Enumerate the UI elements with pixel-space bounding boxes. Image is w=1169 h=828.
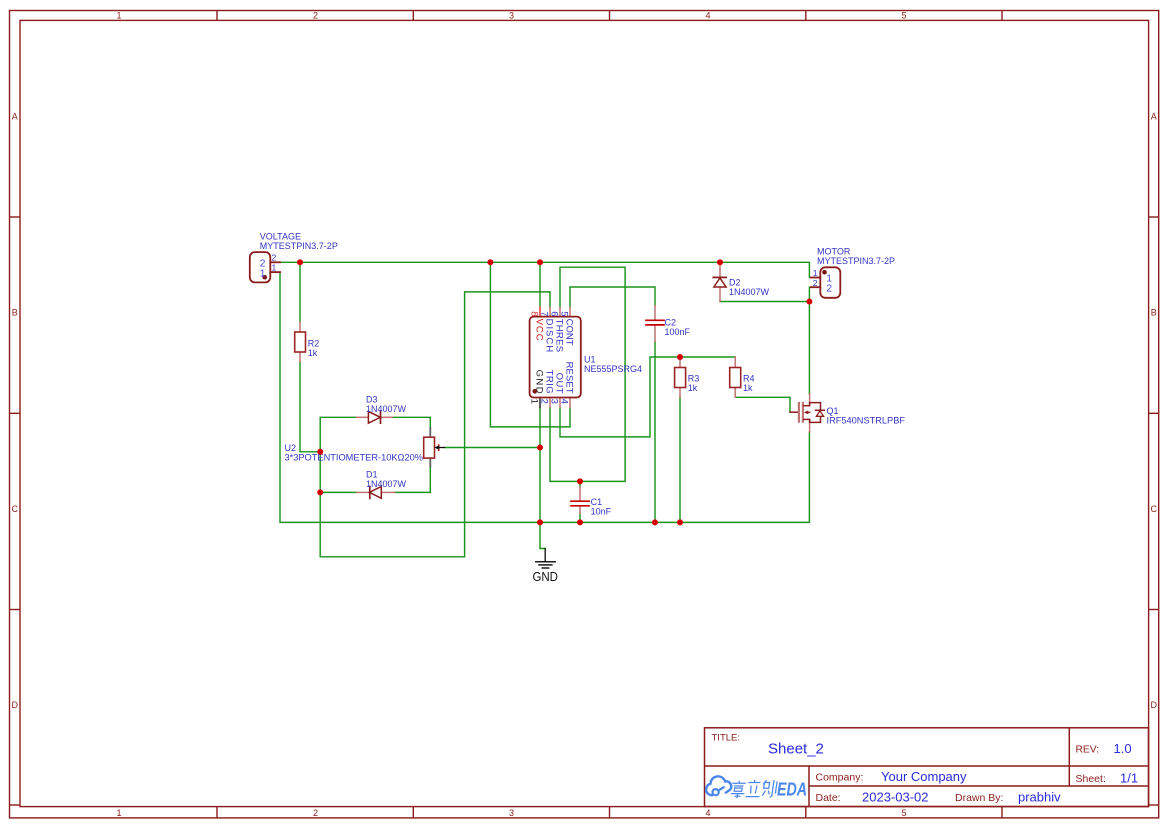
svg-text:A: A (12, 111, 18, 121)
svg-text:Sheet_2: Sheet_2 (768, 741, 824, 758)
svg-text:1N4007W: 1N4007W (366, 479, 407, 489)
svg-text:3: 3 (509, 808, 514, 818)
title block (705, 728, 1149, 807)
wire VCC top rail from VOLTAGE pin2 to MOTOR pin1 (280, 262, 809, 277)
svg-text:REV:: REV: (1076, 745, 1100, 756)
wire D3 row left (320, 416, 356, 418)
diode D2 1N4007W (flyback) (713, 262, 769, 301)
resistor R3 1k (675, 357, 700, 397)
wire R2 bottom to pot-left node (300, 362, 320, 452)
wire rail to RESET pin4 (490, 262, 570, 427)
svg-text:R2: R2 (308, 338, 320, 348)
svg-text:Sheet:: Sheet: (1076, 773, 1106, 785)
svg-text:Q1: Q1 (827, 406, 839, 416)
diode D1 1N4007W (357, 470, 407, 499)
node C1-trig (577, 478, 583, 484)
wire CONT pin5 to C2 top (570, 287, 655, 307)
wire gnd symbol drop (540, 522, 545, 548)
svg-text:2: 2 (272, 253, 277, 263)
svg-text:B: B (1151, 308, 1157, 318)
wire OUT pin3 to R3/R4 top (560, 357, 735, 437)
svg-text:2: 2 (813, 278, 818, 288)
node rail-VCC (537, 259, 543, 265)
svg-text:6: 6 (549, 311, 560, 316)
svg-text:IRF540NSTRLPBF: IRF540NSTRLPBF (827, 416, 906, 426)
ground GND symbol (532, 549, 558, 584)
svg-text:1: 1 (116, 10, 121, 20)
svg-text:4: 4 (705, 10, 710, 20)
node gnd-R3 (677, 519, 683, 525)
node wiper-gnd (537, 445, 543, 451)
svg-text:3: 3 (549, 399, 560, 404)
svg-text:10nF: 10nF (591, 507, 612, 517)
svg-text:D2: D2 (729, 278, 741, 288)
wire D1 row left (320, 491, 356, 493)
transistor Q1 IRF540NSTRLPBF (790, 394, 906, 432)
potentiometer U2 (285, 428, 445, 467)
svg-text:4: 4 (705, 808, 710, 818)
svg-text:4: 4 (559, 399, 570, 404)
wire R3 top stub (679, 357, 681, 360)
svg-text:OUT: OUT (554, 373, 565, 394)
wire C2 bottom to gnd rail (654, 342, 656, 523)
node rail-D2 (717, 259, 723, 265)
wire pot wiper to gnd net (445, 447, 541, 449)
wire pot bottom to D1 row (395, 466, 431, 492)
op-amp U1 NE555PSRG4 (555 timer IC) (529, 307, 642, 407)
svg-text:Your Company: Your Company (881, 769, 967, 784)
junction node dots (297, 259, 812, 525)
svg-text:1k: 1k (743, 383, 753, 393)
wire bottom loop to DISCH pin7 (320, 292, 550, 557)
CIRCUIT (250, 232, 906, 584)
wire D3 row right to pot top (393, 417, 431, 428)
svg-text:Date:: Date: (816, 792, 841, 804)
logo JLC EDA cloud (706, 776, 807, 799)
svg-text:RESET: RESET (564, 362, 575, 394)
svg-text:MOTOR: MOTOR (817, 247, 851, 257)
node rail-R2 (297, 259, 303, 265)
capacitor C1 10nF (571, 487, 612, 517)
svg-text:D1: D1 (366, 470, 378, 480)
svg-text:5: 5 (559, 311, 570, 316)
wire D2 bottom to motor/drain node (720, 301, 809, 303)
wire GND: VOLTAGE pin1 down, bottom rail, up to Q1 source (280, 272, 809, 522)
svg-text:C1: C1 (591, 497, 603, 507)
svg-text:VCC: VCC (534, 319, 545, 341)
立 glyph approx (745, 780, 761, 797)
svg-text:U1: U1 (584, 355, 596, 365)
diode D3 1N4007W (357, 395, 407, 424)
connector U? VOLTAGE MYTESTPIN3.7-2P (250, 232, 338, 283)
svg-text:R3: R3 (688, 374, 700, 384)
wire C1 bottom to rail (579, 514, 581, 523)
svg-text:D: D (1150, 700, 1157, 710)
svg-text:D3: D3 (366, 395, 378, 405)
svg-text:3*3POTENTIOMETER-10KΩ20%: 3*3POTENTIOMETER-10KΩ20% (285, 453, 424, 463)
node R2-pot (317, 449, 323, 455)
svg-text:3: 3 (509, 10, 514, 20)
wire rail to R2 top (299, 262, 301, 322)
svg-text:MYTESTPIN3.7-2P: MYTESTPIN3.7-2P (260, 241, 338, 251)
svg-text:100nF: 100nF (665, 327, 691, 337)
svg-text:CONT: CONT (564, 319, 575, 346)
svg-text:7: 7 (539, 311, 550, 316)
wire MOTOR pin2 down to Q1 drain (808, 287, 810, 394)
svg-text:2: 2 (826, 283, 832, 295)
svg-text:D: D (11, 700, 18, 710)
svg-text:1k: 1k (688, 383, 698, 393)
node gnd-C1 (577, 519, 583, 525)
svg-text:NE555PSRG4: NE555PSRG4 (584, 364, 642, 374)
resistor R2 1k (295, 322, 320, 362)
wire rail to VCC pin8 (539, 262, 541, 307)
svg-text:prabhiv: prabhiv (1018, 790, 1061, 805)
svg-text:1: 1 (813, 268, 818, 278)
node gnd-pin1 (537, 519, 543, 525)
svg-text:1: 1 (529, 399, 540, 404)
svg-text:TITLE:: TITLE: (712, 733, 741, 744)
svg-text:1: 1 (260, 267, 266, 279)
node D1-pot (317, 489, 323, 495)
svg-text:A: A (1151, 111, 1157, 121)
svg-text:1k: 1k (308, 348, 318, 358)
svg-text:DISCH: DISCH (544, 319, 555, 353)
svg-text:2: 2 (313, 808, 318, 818)
svg-text:5: 5 (901, 808, 906, 818)
svg-text:2: 2 (313, 10, 318, 20)
node gnd-C2 (652, 519, 658, 525)
svg-text:1: 1 (272, 263, 277, 273)
wire R4 bottom to Q1 gate (735, 397, 790, 412)
capacitor C2 100nF (646, 306, 691, 342)
wire R3 bottom to gnd rail (679, 397, 681, 522)
resistor R4 1k (730, 357, 755, 397)
svg-text:2023-03-02: 2023-03-02 (862, 790, 929, 805)
svg-text:1N4007W: 1N4007W (729, 287, 770, 297)
node R3-out (677, 354, 683, 360)
svg-text:1N4007W: 1N4007W (366, 404, 407, 414)
svg-text:MYTESTPIN3.7-2P: MYTESTPIN3.7-2P (817, 256, 895, 266)
svg-text:TRIG: TRIG (544, 370, 555, 394)
嘉 glyph approx (730, 781, 746, 798)
svg-text:B: B (12, 308, 18, 318)
svg-text:8: 8 (529, 311, 540, 316)
svg-text:GND: GND (534, 370, 545, 394)
wire THRES pin6 to TRIG pin2 and C1 top (550, 267, 625, 481)
node D2-motor (806, 299, 812, 305)
创 glyph approx (761, 780, 777, 797)
svg-text:R4: R4 (743, 374, 755, 384)
svg-text:1.0: 1.0 (1114, 741, 1132, 756)
svg-text:GND: GND (532, 569, 558, 584)
svg-text:C: C (11, 504, 18, 514)
node rail-RESET (487, 259, 493, 265)
svg-text:C: C (1150, 504, 1157, 514)
wire 555 GND pin1 down to rail (539, 407, 541, 522)
svg-text:5: 5 (901, 10, 906, 20)
svg-text:THRES: THRES (554, 319, 565, 353)
svg-text:U2: U2 (285, 443, 297, 453)
wire left vertical D3/D1 node (319, 417, 321, 557)
svg-text:Company:: Company: (816, 772, 864, 784)
svg-text:Drawn By:: Drawn By: (955, 792, 1003, 804)
svg-text:2: 2 (539, 399, 550, 404)
connector MOTOR MYTESTPIN3.7-2P (811, 247, 895, 298)
svg-text:VOLTAGE: VOLTAGE (260, 232, 301, 242)
svg-text:1: 1 (116, 808, 121, 818)
svg-text:1/1: 1/1 (1120, 771, 1138, 786)
svg-text:C2: C2 (665, 318, 677, 328)
svg-text:EDA: EDA (777, 779, 807, 800)
wire C1 top stub (579, 481, 581, 487)
